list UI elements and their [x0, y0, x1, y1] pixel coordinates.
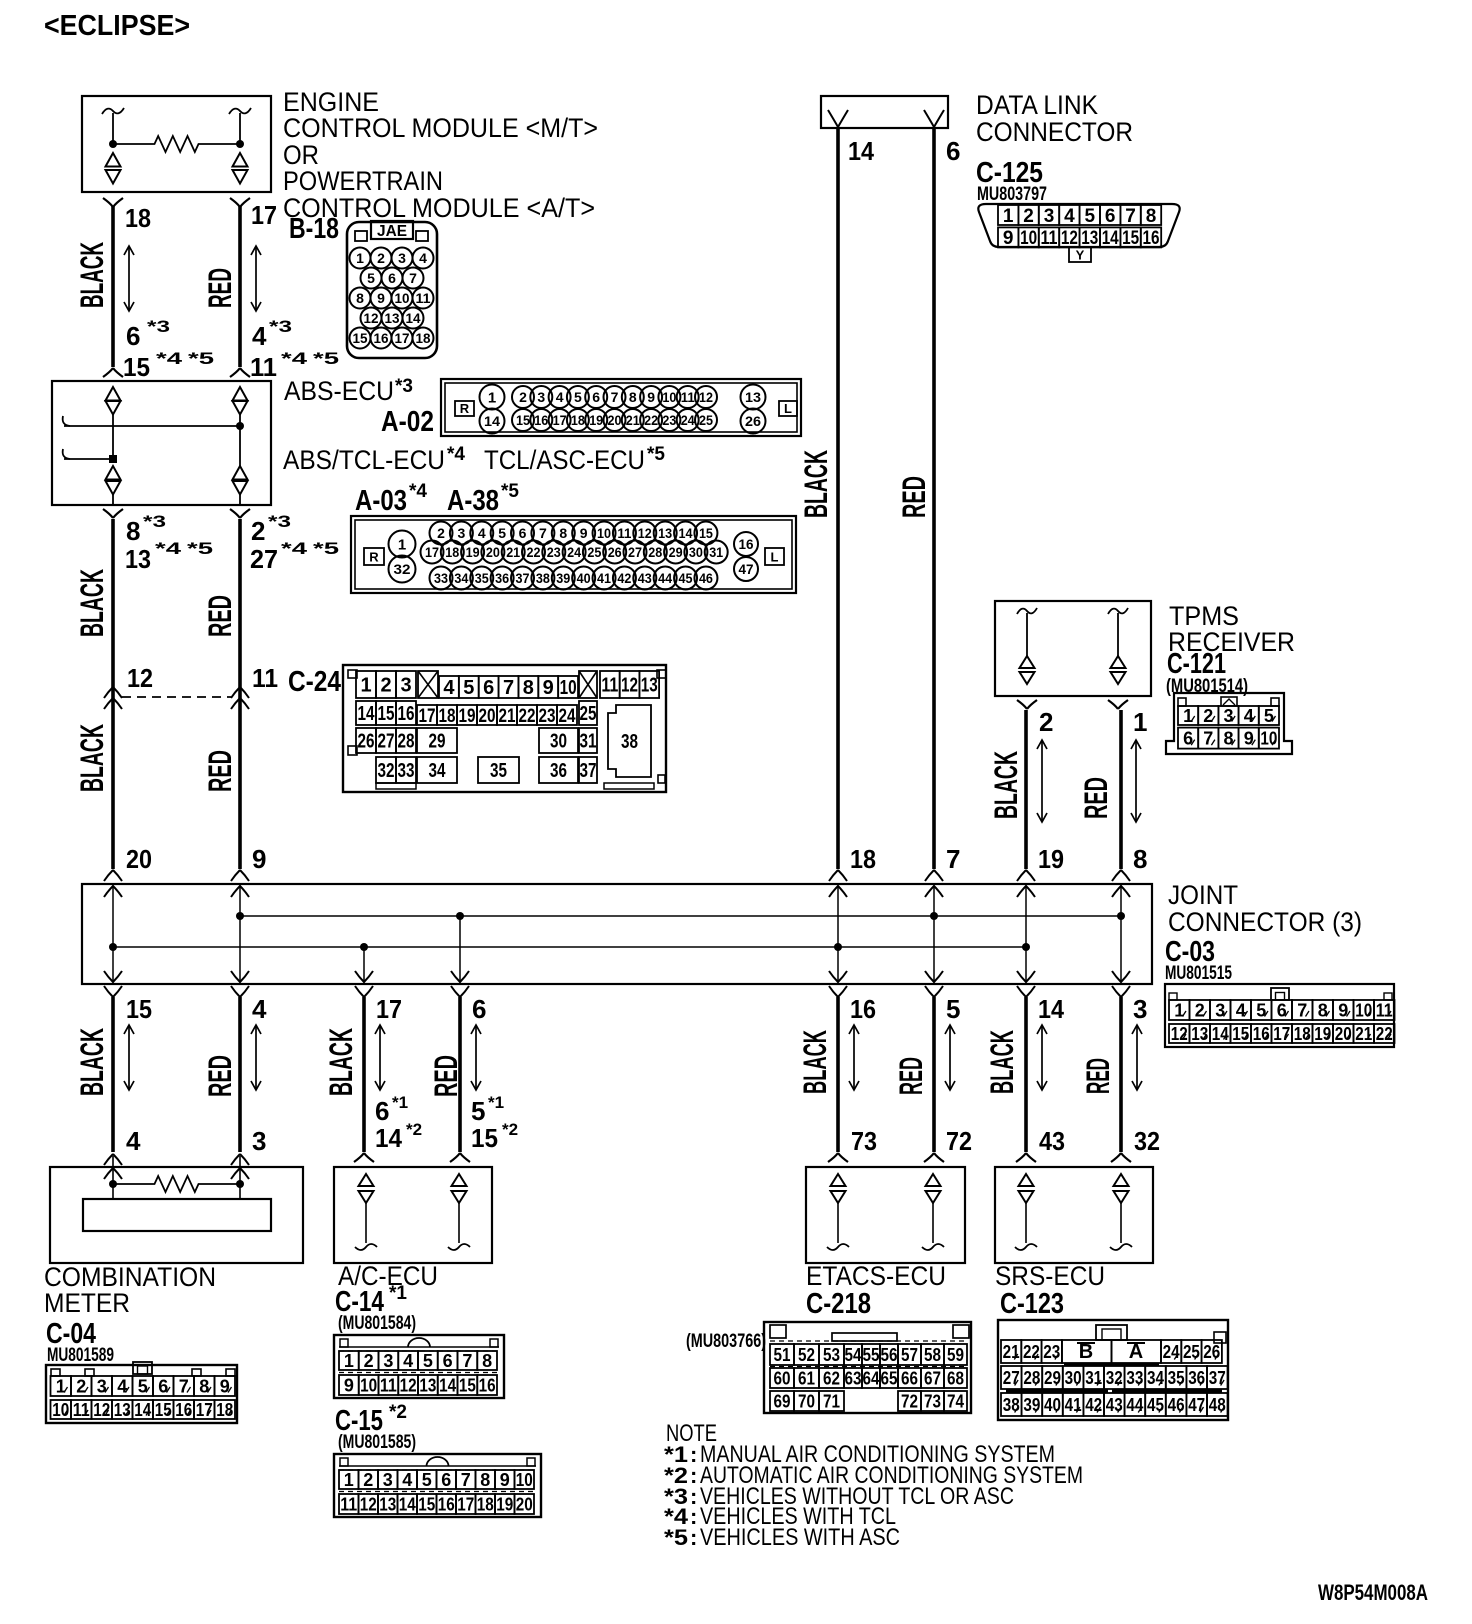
- svg-text:38: 38: [1003, 1395, 1020, 1415]
- wire BLACK ABS8 fork: [103, 509, 123, 518]
- pin label 16 jc: [850, 994, 876, 1024]
- pin label 14 dlc: [848, 136, 874, 166]
- connector id A-02: [381, 406, 434, 438]
- wire BLACK ECM18 fork bottom: [103, 368, 123, 377]
- joint bus BLACK: [113, 946, 1026, 948]
- svg-text:DATA LINK: DATA LINK: [976, 90, 1098, 120]
- svg-text:16: 16: [175, 1400, 192, 1420]
- arrow seg1 left: [124, 246, 134, 311]
- svg-text:45: 45: [1147, 1395, 1164, 1415]
- svg-text:26: 26: [1203, 1342, 1220, 1362]
- svg-text:57: 57: [901, 1345, 918, 1365]
- svg-text:6: 6: [1105, 206, 1116, 227]
- svg-text:L: L: [784, 401, 792, 416]
- svg-text:9: 9: [647, 389, 655, 405]
- label RED bot2: [428, 1055, 464, 1097]
- wire RED joint to ECU x934: [932, 997, 936, 1152]
- svg-text:1: 1: [344, 1470, 354, 1490]
- svg-text:1: 1: [356, 250, 364, 266]
- label RED seg1: [202, 268, 238, 308]
- wire RED TPMS pin 1 to joint 8: [1119, 710, 1123, 869]
- svg-text:23: 23: [1043, 1342, 1060, 1362]
- svg-text:35: 35: [475, 570, 489, 586]
- svg-text:6: 6: [946, 136, 960, 166]
- svg-text:(MU801584): (MU801584): [338, 1313, 416, 1334]
- pin label 11: [252, 663, 278, 693]
- svg-text:25: 25: [580, 703, 597, 725]
- connector id C-03: [1165, 936, 1215, 968]
- meter entry marks x113: [104, 1154, 122, 1179]
- wire fork bottom x934: [924, 1153, 944, 1162]
- svg-text:5: 5: [946, 994, 960, 1024]
- svg-text:3: 3: [398, 250, 406, 266]
- svg-text:2: 2: [1203, 706, 1213, 726]
- joint connector internal leads: [113, 884, 1121, 984]
- svg-text:4: 4: [419, 250, 427, 266]
- svg-text:MU801515: MU801515: [1165, 963, 1232, 984]
- ETACS terminals: [827, 1174, 944, 1250]
- wire BLACK DLC pin 14 to joint 18: [836, 127, 840, 869]
- pin label 4*3: [252, 317, 292, 351]
- svg-text:C-123: C-123: [1000, 1288, 1064, 1320]
- svg-text:CONTROL MODULE <M/T>: CONTROL MODULE <M/T>: [283, 113, 598, 143]
- svg-text:10: 10: [1355, 1000, 1372, 1020]
- ABS caption: [284, 376, 413, 406]
- svg-text:40: 40: [577, 570, 591, 586]
- svg-text:25: 25: [1183, 1342, 1200, 1362]
- wire BLACK joint to ECU x364: [362, 997, 366, 1152]
- svg-text:W8P54M008A: W8P54M008A: [1318, 1580, 1428, 1605]
- svg-text::: :: [690, 1525, 697, 1550]
- svg-text:53: 53: [823, 1345, 840, 1365]
- svg-text:9: 9: [344, 1375, 354, 1395]
- wire RED ECM pin 17 to ABS pin 2: [238, 206, 242, 367]
- svg-text:A-03: A-03: [355, 485, 407, 517]
- arrow bottom x240: [251, 1025, 261, 1090]
- svg-text:16: 16: [1253, 1024, 1270, 1044]
- label BLACK seg1: [74, 242, 110, 308]
- svg-text:2: 2: [380, 675, 391, 697]
- svg-text:11: 11: [73, 1400, 90, 1420]
- comb meter node right: [236, 1180, 244, 1188]
- svg-text:38: 38: [536, 570, 550, 586]
- pin label 2 tpms: [1039, 707, 1053, 737]
- svg-text:3: 3: [383, 1470, 393, 1490]
- svg-text:20: 20: [486, 544, 500, 560]
- connector C-123 face: [998, 1320, 1228, 1420]
- label RED bot4: [1080, 1058, 1116, 1094]
- svg-text:32: 32: [1134, 1126, 1160, 1156]
- svg-text:RED: RED: [202, 595, 238, 637]
- svg-text:9: 9: [500, 1470, 510, 1490]
- svg-text:14: 14: [484, 413, 500, 429]
- svg-text:30: 30: [689, 544, 703, 560]
- svg-text:3: 3: [1044, 206, 1055, 227]
- svg-text:28: 28: [1023, 1368, 1040, 1388]
- svg-text:16: 16: [374, 330, 389, 346]
- svg-text:72: 72: [901, 1391, 918, 1411]
- svg-text:24: 24: [681, 412, 695, 428]
- svg-text:4: 4: [443, 677, 455, 699]
- svg-text:JOINT: JOINT: [1168, 880, 1238, 910]
- svg-text:30: 30: [1065, 1368, 1082, 1388]
- svg-text:15: 15: [126, 994, 152, 1024]
- wire RED ABS pin 2 to joint 9: [238, 519, 242, 869]
- label MU801514: [1166, 676, 1248, 697]
- svg-text:16: 16: [850, 994, 876, 1024]
- DLC wire fork right: [924, 110, 944, 127]
- svg-text:6: 6: [441, 1470, 451, 1490]
- ABS pin left up 2: [106, 466, 121, 480]
- svg-text:18: 18: [125, 203, 151, 233]
- label MU803766: [686, 1331, 766, 1352]
- svg-text:1: 1: [56, 1376, 66, 1396]
- svg-text:7: 7: [462, 1351, 472, 1371]
- svg-text:33: 33: [1126, 1368, 1143, 1388]
- svg-text:16: 16: [398, 703, 415, 725]
- svg-text:17: 17: [553, 412, 567, 428]
- ETACS caption: [806, 1261, 946, 1291]
- svg-text:2: 2: [364, 1351, 374, 1371]
- svg-text:4: 4: [1064, 206, 1075, 227]
- svg-text:3: 3: [1215, 1000, 1225, 1020]
- svg-text:12: 12: [699, 389, 713, 405]
- pin label 32: [1134, 1126, 1160, 1156]
- svg-text:6: 6: [592, 389, 600, 405]
- joint connector exit marks: [104, 971, 1130, 997]
- ECM node left: [109, 140, 117, 148]
- svg-text:A-38: A-38: [447, 485, 499, 517]
- pin label 43: [1039, 1126, 1065, 1156]
- svg-text:45: 45: [679, 570, 693, 586]
- svg-text:C-24: C-24: [288, 666, 341, 698]
- pin label 13*4*5: [125, 539, 213, 574]
- svg-text:CONNECTOR (3): CONNECTOR (3): [1168, 907, 1362, 937]
- svg-text:5: 5: [1085, 206, 1096, 227]
- svg-text:33: 33: [434, 570, 448, 586]
- svg-text:6: 6: [126, 321, 140, 351]
- svg-text:15: 15: [516, 412, 530, 428]
- ECM pin symbol right up: [233, 153, 248, 167]
- svg-text:*1: *1: [392, 1093, 408, 1112]
- svg-text:RED: RED: [202, 750, 238, 792]
- ECM caption: [283, 87, 598, 223]
- svg-text:5: 5: [574, 389, 582, 405]
- pin label 8 jc: [1133, 844, 1147, 874]
- pin label 7 jc: [946, 844, 960, 874]
- svg-text:18: 18: [439, 706, 456, 727]
- svg-text:6: 6: [388, 270, 396, 286]
- svg-text:3: 3: [1223, 706, 1233, 726]
- wire fork bottom x1026: [1016, 1153, 1036, 1162]
- svg-text:11: 11: [340, 1494, 357, 1514]
- svg-text:RED: RED: [202, 1055, 238, 1097]
- svg-text:A-02: A-02: [381, 406, 434, 438]
- comb meter lead left: [112, 1156, 114, 1199]
- svg-text:46: 46: [1168, 1395, 1185, 1415]
- connector C-24 face: [343, 665, 666, 792]
- svg-text:11: 11: [250, 352, 277, 382]
- svg-text:63: 63: [845, 1368, 862, 1388]
- ECM node right: [236, 140, 244, 148]
- svg-text:22: 22: [644, 412, 658, 428]
- svg-text:1: 1: [1174, 1000, 1184, 1020]
- svg-text:*1: *1: [488, 1093, 504, 1112]
- svg-text:48: 48: [1209, 1395, 1226, 1415]
- svg-text:22: 22: [1376, 1024, 1393, 1044]
- label MU801585: [338, 1432, 416, 1453]
- svg-text:43: 43: [638, 570, 652, 586]
- drawing number W8P54M008A: [1318, 1580, 1428, 1605]
- svg-text:14: 14: [134, 1400, 151, 1420]
- pin label 1 tpms: [1133, 707, 1147, 737]
- svg-text:4: 4: [126, 1126, 141, 1156]
- pin label 2*3: [251, 512, 291, 546]
- TPMS caption: [1168, 601, 1295, 657]
- svg-text:10: 10: [1260, 729, 1277, 749]
- svg-text:15: 15: [378, 703, 395, 725]
- svg-text:12: 12: [621, 675, 638, 697]
- svg-text:*3: *3: [268, 512, 291, 531]
- wire fork bottom x460: [450, 1153, 470, 1162]
- svg-text:*4: *4: [281, 349, 308, 368]
- connector id C-04: [46, 1318, 96, 1350]
- svg-text:18: 18: [1294, 1024, 1311, 1044]
- svg-text:18: 18: [216, 1400, 233, 1420]
- svg-text:64: 64: [863, 1368, 880, 1388]
- svg-text:18: 18: [850, 844, 876, 874]
- connector id C-218: [806, 1288, 871, 1320]
- svg-text:44: 44: [658, 570, 672, 586]
- svg-text:5: 5: [422, 1470, 432, 1490]
- svg-text:67: 67: [924, 1368, 941, 1388]
- pin label 12: [127, 663, 153, 693]
- SRS terminals: [1015, 1174, 1132, 1250]
- svg-text:*3: *3: [143, 512, 166, 531]
- svg-text:*5: *5: [313, 539, 339, 558]
- svg-text:16: 16: [479, 1375, 496, 1395]
- svg-text:*2: *2: [389, 1402, 407, 1423]
- svg-text:11: 11: [617, 525, 631, 541]
- connector C-121 face: [1166, 693, 1292, 754]
- svg-text:36: 36: [1188, 1368, 1205, 1388]
- svg-text:1: 1: [1183, 706, 1193, 726]
- connector id A-03: [355, 481, 427, 517]
- svg-text:9: 9: [1003, 228, 1014, 249]
- svg-text:8: 8: [523, 677, 534, 699]
- svg-text:36: 36: [550, 760, 567, 782]
- comb meter node left: [109, 1180, 117, 1188]
- TPMS terminal right lead: [1117, 613, 1119, 657]
- svg-text:8: 8: [1318, 1000, 1328, 1020]
- svg-text:24: 24: [559, 706, 576, 727]
- svg-text:12: 12: [1061, 228, 1078, 249]
- svg-text:7: 7: [539, 525, 547, 541]
- svg-text:73: 73: [924, 1391, 941, 1411]
- svg-text:8: 8: [482, 1351, 492, 1371]
- svg-text:Y: Y: [1076, 248, 1085, 263]
- svg-text:5: 5: [1264, 706, 1274, 726]
- svg-text:4: 4: [403, 1351, 413, 1371]
- svg-text:ABS/TCL-ECU: ABS/TCL-ECU: [283, 445, 445, 475]
- pin label 14*2: [375, 1120, 422, 1153]
- TPMS terminal left lead: [1026, 613, 1028, 657]
- svg-text:35: 35: [490, 760, 507, 782]
- svg-text:17: 17: [457, 1494, 474, 1514]
- svg-text:*2: *2: [406, 1120, 422, 1139]
- svg-text:4: 4: [478, 525, 486, 541]
- svg-text:RED: RED: [896, 476, 932, 518]
- svg-text:12: 12: [364, 310, 379, 326]
- svg-text:26: 26: [745, 413, 761, 429]
- label MU801515: [1165, 963, 1232, 984]
- pin label 18: [125, 203, 151, 233]
- svg-text:1: 1: [488, 389, 496, 406]
- svg-text:26: 26: [608, 544, 622, 560]
- svg-text:8: 8: [356, 290, 364, 306]
- svg-text:MU803797: MU803797: [977, 184, 1047, 205]
- svg-text:19: 19: [1314, 1024, 1331, 1044]
- svg-text:L: L: [771, 550, 779, 565]
- svg-text:22: 22: [1023, 1342, 1040, 1362]
- svg-text:BLACK: BLACK: [74, 242, 110, 308]
- wire RED DLC pin 6 to joint 7: [932, 127, 936, 869]
- svg-text:13: 13: [114, 1400, 131, 1420]
- svg-text:14: 14: [406, 310, 421, 326]
- pin label 6 dlc: [946, 136, 960, 166]
- svg-text:14: 14: [375, 1123, 403, 1153]
- label BLACK bot2: [323, 1028, 359, 1096]
- svg-text:7: 7: [1203, 729, 1213, 749]
- ABS pin right down 2: [233, 481, 248, 495]
- svg-text:69: 69: [774, 1391, 791, 1411]
- ABS lower bus: [64, 458, 113, 460]
- arrow bottom x838: [849, 1025, 859, 1090]
- wire RED ABS2 fork: [230, 509, 250, 518]
- title <ECLIPSE>: [44, 10, 190, 42]
- wire RED ECM17 fork bottom: [230, 368, 250, 377]
- svg-text:*3: *3: [147, 317, 170, 336]
- ECM pin symbol left up: [106, 153, 121, 167]
- connector C-14 face: [334, 1335, 504, 1398]
- svg-text:29: 29: [669, 544, 683, 560]
- svg-text:3: 3: [537, 389, 545, 405]
- A/C-ECU box: [334, 1167, 492, 1263]
- svg-text:23: 23: [539, 706, 556, 727]
- svg-text:*5: *5: [187, 539, 213, 558]
- svg-text:A: A: [1129, 1341, 1143, 1363]
- svg-text:34: 34: [429, 760, 447, 782]
- svg-text:8: 8: [1133, 844, 1147, 874]
- svg-text:35: 35: [1168, 1368, 1185, 1388]
- svg-text:31: 31: [709, 544, 723, 560]
- svg-text:5: 5: [367, 270, 375, 286]
- svg-text:21: 21: [626, 412, 640, 428]
- svg-text:31: 31: [1085, 1368, 1102, 1388]
- svg-text:B: B: [1079, 1341, 1093, 1363]
- svg-text:7: 7: [1297, 1000, 1307, 1020]
- svg-text:15: 15: [353, 330, 368, 346]
- C-24 pass-through mark left: [104, 687, 122, 709]
- svg-text:10: 10: [395, 290, 410, 306]
- svg-text:7: 7: [179, 1376, 189, 1396]
- wire RED joint to ECU x1121: [1119, 997, 1123, 1152]
- wire RED ECM17 fork top: [230, 198, 250, 207]
- svg-text:32: 32: [394, 561, 411, 577]
- svg-text:29: 29: [1044, 1368, 1061, 1388]
- svg-text:*5: *5: [188, 349, 214, 368]
- svg-text:9: 9: [1244, 729, 1254, 749]
- label RED seg3: [202, 750, 238, 792]
- svg-text:13: 13: [385, 310, 400, 326]
- svg-text:17: 17: [1273, 1024, 1290, 1044]
- data link connector box: [821, 96, 948, 128]
- connector id B-18: [289, 213, 339, 245]
- svg-text:8: 8: [629, 389, 637, 405]
- svg-text:2: 2: [363, 1470, 373, 1490]
- pin label 9: [252, 844, 266, 874]
- svg-text:*1: *1: [389, 1283, 407, 1304]
- svg-text:2: 2: [437, 525, 445, 541]
- svg-text:19: 19: [589, 412, 603, 428]
- joint connector box: [82, 884, 1152, 984]
- svg-text:*2: *2: [502, 1120, 518, 1139]
- svg-text:34: 34: [1147, 1368, 1164, 1388]
- svg-text:12: 12: [1171, 1024, 1188, 1044]
- wire BLACK ECM pin 18 to ABS pin 8: [111, 206, 115, 367]
- svg-text:33: 33: [398, 760, 415, 782]
- svg-text:46: 46: [699, 570, 713, 586]
- arrow bottom x364: [375, 1025, 385, 1090]
- svg-text:43: 43: [1039, 1126, 1065, 1156]
- svg-text:17: 17: [419, 706, 436, 727]
- arrow bottom x934: [945, 1025, 955, 1090]
- svg-text:*5: *5: [313, 349, 339, 368]
- svg-text:70: 70: [798, 1391, 815, 1411]
- svg-text:47: 47: [1188, 1395, 1205, 1415]
- svg-text:39: 39: [556, 570, 570, 586]
- svg-text:20: 20: [126, 844, 152, 874]
- label RED seg2: [202, 595, 238, 637]
- svg-text:51: 51: [774, 1345, 791, 1365]
- svg-text:44: 44: [1126, 1395, 1143, 1415]
- svg-text:28: 28: [398, 731, 415, 753]
- label BLACK seg2: [74, 569, 110, 637]
- svg-text:15: 15: [155, 1400, 172, 1420]
- wire BLACK joint to ECU x838: [836, 997, 840, 1152]
- svg-text:21: 21: [1355, 1024, 1372, 1044]
- ABS-ECU box: [52, 381, 271, 505]
- svg-text:7: 7: [1125, 206, 1136, 227]
- label RED tpms: [1078, 777, 1114, 819]
- svg-text:*4: *4: [447, 444, 465, 465]
- svg-text:15: 15: [418, 1494, 435, 1514]
- svg-text:ABS-ECU: ABS-ECU: [284, 376, 394, 406]
- svg-text:11: 11: [1041, 228, 1058, 249]
- svg-text:72: 72: [946, 1126, 972, 1156]
- svg-text:13: 13: [641, 675, 658, 697]
- svg-text:27: 27: [378, 731, 395, 753]
- arrow bottom x1026: [1037, 1025, 1047, 1090]
- terminating resistor ECM: [113, 136, 240, 152]
- svg-text:59: 59: [947, 1345, 964, 1365]
- label MU803797: [977, 184, 1047, 205]
- connector id C-24: [288, 666, 341, 698]
- svg-text:SRS-ECU: SRS-ECU: [995, 1261, 1105, 1291]
- svg-text:15: 15: [471, 1123, 498, 1153]
- svg-text:1: 1: [360, 675, 371, 697]
- svg-text:34: 34: [454, 570, 468, 586]
